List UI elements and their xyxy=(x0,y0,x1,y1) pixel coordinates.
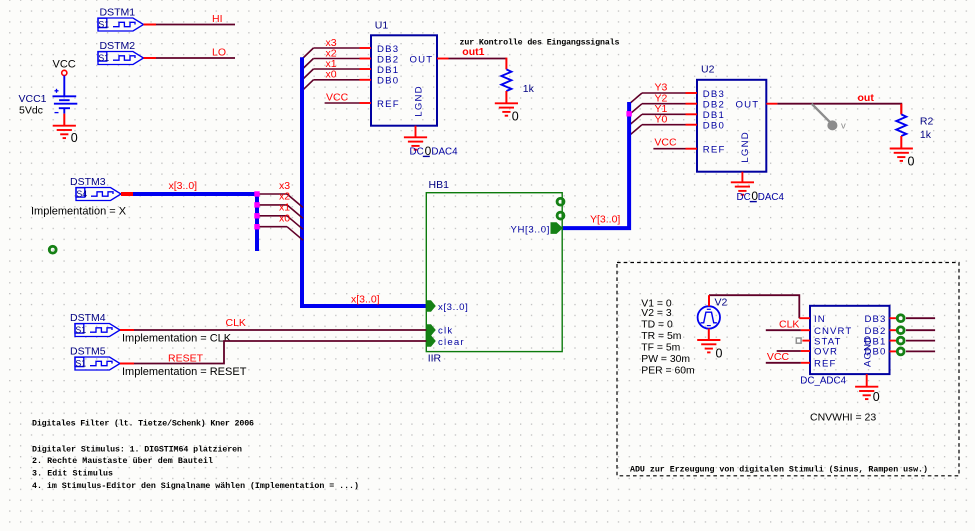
svg-text:0: 0 xyxy=(908,154,915,168)
svg-text:0: 0 xyxy=(71,131,78,145)
svg-text:0: 0 xyxy=(425,144,432,158)
svg-text:AGND: AGND xyxy=(863,335,874,367)
bus x[3..0] from DSTM3 xyxy=(133,194,257,251)
U2 pin stubs xyxy=(686,93,778,182)
svg-text:x[3..0]: x[3..0] xyxy=(351,294,380,306)
svg-text:0: 0 xyxy=(512,109,519,123)
svg-text:x[3..0]: x[3..0] xyxy=(438,302,468,313)
wire x3 to U1.DB3 xyxy=(313,47,359,49)
svg-text:VCC: VCC xyxy=(326,91,349,103)
wire VCC to U2.REF xyxy=(653,148,685,150)
svg-text:Digitales Filter (lt. Tietze/S: Digitales Filter (lt. Tietze/Schenk) Kne… xyxy=(32,419,254,429)
HB1 port clk xyxy=(427,324,436,336)
svg-text:Y[3..0]: Y[3..0] xyxy=(590,213,620,225)
wire Y2 to U2.DB2 xyxy=(642,103,686,105)
bus x[3..0] main vertical xyxy=(302,57,426,306)
wire V2 to ground xyxy=(708,329,710,340)
svg-text:IN: IN xyxy=(814,314,826,325)
ADC pin names xyxy=(814,314,887,370)
wire VCC to battery xyxy=(63,76,65,97)
DSTM2 pin stub xyxy=(144,57,157,59)
junction x3 xyxy=(254,191,259,196)
wire DB3 xyxy=(906,317,935,319)
svg-text:HB1: HB1 xyxy=(429,179,450,191)
svg-text:x0: x0 xyxy=(279,213,290,225)
svg-text:STAT: STAT xyxy=(814,336,842,347)
unconnected marker (left) xyxy=(49,246,56,253)
svg-text:DAC4: DAC4 xyxy=(431,147,458,158)
wire Y0 to U2.DB0 xyxy=(642,124,686,126)
svg-text:DB0: DB0 xyxy=(377,76,399,87)
svg-text:ADU zur Erzeugung von digitale: ADU zur Erzeugung von digitalen Stimuli … xyxy=(630,464,928,474)
svg-text:DSTM1: DSTM1 xyxy=(100,7,136,19)
wire R2 to ground xyxy=(900,136,902,149)
svg-text:CNVRT: CNVRT xyxy=(814,326,852,337)
svg-text:IIR: IIR xyxy=(428,352,442,364)
ADC U3 DC_ADC4 xyxy=(810,306,890,374)
svg-text:TR = 5m: TR = 5m xyxy=(641,331,681,342)
svg-text:OVR: OVR xyxy=(814,347,838,358)
svg-text:out: out xyxy=(858,92,875,104)
svg-text:1k: 1k xyxy=(523,83,535,95)
svg-text:DB3: DB3 xyxy=(865,314,887,325)
STAT no-connect marker xyxy=(796,338,801,343)
svg-text:DC: DC xyxy=(410,147,424,158)
svg-text:REF: REF xyxy=(703,145,726,156)
svg-text:LO: LO xyxy=(212,47,226,59)
wire LO xyxy=(156,57,235,59)
dashed boundary box xyxy=(617,263,959,476)
svg-text:TF = 5m: TF = 5m xyxy=(641,343,680,354)
svg-text:VCC: VCC xyxy=(654,136,677,148)
svg-text:5Vdc: 5Vdc xyxy=(19,104,43,116)
bus tap x0 xyxy=(257,226,287,228)
wire VCC to REF (ADC) xyxy=(766,362,801,364)
svg-text:DB3: DB3 xyxy=(703,89,725,100)
svg-text:REF: REF xyxy=(377,99,400,110)
ground (ADC AGND) xyxy=(855,387,878,399)
unconnected pin marker (HB1 top) xyxy=(557,198,564,205)
wire x0 to U1.DB0 xyxy=(313,79,359,81)
digital stimulus DSTM2 xyxy=(98,52,144,65)
ground (U1 LGND) xyxy=(404,137,427,149)
wire x2 to U1.DB2 xyxy=(313,58,359,60)
title text block xyxy=(32,419,359,491)
svg-text:V2: V2 xyxy=(715,297,728,309)
ground 0 (VCC1) xyxy=(53,126,76,138)
pin marker DB3 xyxy=(897,315,904,322)
svg-text:S1: S1 xyxy=(98,19,109,29)
svg-text:3. Edit Stimulus: 3. Edit Stimulus xyxy=(32,469,113,479)
svg-text:0: 0 xyxy=(751,189,758,203)
svg-text:DB2: DB2 xyxy=(703,100,725,111)
hierarchical block HB1 xyxy=(426,193,562,352)
svg-text:VCC1: VCC1 xyxy=(19,93,47,105)
wire out xyxy=(777,104,901,115)
svg-text:S1: S1 xyxy=(75,358,86,368)
svg-text:PW = 30m: PW = 30m xyxy=(641,354,690,365)
ground (U2 LGND) xyxy=(731,182,754,194)
wire HI xyxy=(156,24,235,26)
svg-text:HI: HI xyxy=(212,13,223,25)
junction x0 xyxy=(254,224,259,229)
svg-text:0: 0 xyxy=(873,390,880,404)
wire x1 to U1.DB1 xyxy=(313,68,359,70)
wire CLK xyxy=(134,329,426,331)
svg-text:DC: DC xyxy=(737,192,751,203)
svg-text:VCC: VCC xyxy=(53,58,76,70)
svg-text:Implementation = X: Implementation = X xyxy=(31,205,127,217)
pin marker DB2 xyxy=(897,327,904,334)
svg-text:DB1: DB1 xyxy=(377,65,399,76)
svg-text:YH[3..0]: YH[3..0] xyxy=(511,224,550,235)
pin marker DB1 xyxy=(897,337,904,344)
wire CLK to CNVRT xyxy=(766,329,801,331)
svg-text:LGND: LGND xyxy=(740,131,751,162)
DSTM4 pin stub xyxy=(120,329,134,331)
wire OVR xyxy=(777,350,801,352)
digital stimulus DSTM3 xyxy=(76,188,121,201)
svg-text:OUT: OUT xyxy=(410,54,434,65)
U1 pin names xyxy=(377,44,433,117)
svg-text:0: 0 xyxy=(716,347,723,361)
svg-text:CLK: CLK xyxy=(779,318,799,330)
wire V2 to ADC.IN xyxy=(709,295,799,318)
ground 0 (out1) xyxy=(495,103,518,115)
svg-text:DSTM2: DSTM2 xyxy=(100,40,136,52)
svg-text:S1: S1 xyxy=(98,53,109,63)
digital stimulus DSTM1 xyxy=(98,18,144,31)
svg-text:S1: S1 xyxy=(75,325,86,335)
digital stimulus DSTM4 xyxy=(75,324,120,337)
svg-text:TD = 0: TD = 0 xyxy=(641,320,673,331)
svg-text:clk: clk xyxy=(438,326,453,337)
DSTM3 bus stub xyxy=(121,192,133,196)
svg-text:v: v xyxy=(841,121,846,132)
svg-text:out1: out1 xyxy=(462,46,484,58)
resistor R2 1k xyxy=(896,114,906,136)
svg-text:DSTM5: DSTM5 xyxy=(70,346,106,358)
svg-text:Implementation = RESET: Implementation = RESET xyxy=(122,366,247,378)
pin marker DB0 xyxy=(897,348,904,355)
U2 pin names xyxy=(703,89,760,163)
svg-text:PER = 60m: PER = 60m xyxy=(641,365,694,376)
wire out1 xyxy=(449,58,507,60)
wire DB2 xyxy=(906,329,935,331)
voltage probe xyxy=(812,104,831,123)
junction x1 xyxy=(254,213,259,218)
op-amp/DAC U1 xyxy=(371,35,437,125)
svg-text:4. im Stimulus-Editor den Sign: 4. im Stimulus-Editor den Signalname wäh… xyxy=(32,481,359,491)
svg-text:U2: U2 xyxy=(701,64,715,76)
bus tap x3 xyxy=(257,193,287,195)
svg-text:1k: 1k xyxy=(920,129,932,141)
svg-text:R2: R2 xyxy=(920,115,934,127)
svg-text:LGND: LGND xyxy=(414,85,425,116)
svg-text:RESET: RESET xyxy=(168,352,204,364)
wire battery to ground xyxy=(63,114,65,126)
svg-text:CLK: CLK xyxy=(226,317,246,329)
resistor 1k (U1 load) xyxy=(501,69,511,91)
op-amp/DAC U2 xyxy=(697,80,766,172)
HB1 port YH[3..0] xyxy=(551,222,563,234)
junction x2 xyxy=(254,202,259,207)
svg-text:2. Rechte Maustaste über dem B: 2. Rechte Maustaste über dem Bauteil xyxy=(32,456,213,466)
wire RESET to clear xyxy=(134,341,426,364)
svg-text:Y0: Y0 xyxy=(655,113,668,125)
svg-text:clear: clear xyxy=(438,337,465,348)
svg-text:DB0: DB0 xyxy=(703,121,725,132)
HB1 port x[3..0] xyxy=(427,300,436,312)
V2 parameter list xyxy=(641,299,694,377)
svg-text:Digitaler Stimulus: 1. DIGSTIM: Digitaler Stimulus: 1. DIGSTIM64 platzie… xyxy=(32,445,242,455)
svg-text:DAC4: DAC4 xyxy=(758,192,785,203)
svg-text:DC_ADC4: DC_ADC4 xyxy=(800,375,846,386)
bus tap x1 xyxy=(257,215,287,217)
svg-text:DB2: DB2 xyxy=(377,54,399,65)
svg-text:U1: U1 xyxy=(375,20,389,32)
svg-text:V2 = 3: V2 = 3 xyxy=(641,308,672,319)
svg-text:DSTM4: DSTM4 xyxy=(70,312,106,324)
DSTM5 pin stub xyxy=(120,363,134,365)
svg-text:x[3..0]: x[3..0] xyxy=(169,180,198,192)
svg-text:Implementation = CLK: Implementation = CLK xyxy=(122,333,232,345)
svg-text:VCC: VCC xyxy=(767,351,790,363)
digital stimulus DSTM5 xyxy=(75,357,120,370)
source V2 xyxy=(698,306,720,328)
wire resistor to ground xyxy=(505,91,507,103)
bus Y[3..0] xyxy=(562,102,629,228)
U1 pin stubs xyxy=(360,48,449,137)
battery VCC1 5Vdc xyxy=(53,96,78,113)
wire DB1 xyxy=(906,340,935,342)
DSTM1 pin stub xyxy=(144,24,157,26)
wire Y3 to U2.DB3 xyxy=(642,92,686,94)
svg-text:DB3: DB3 xyxy=(377,44,399,55)
wire DB0 xyxy=(906,350,935,352)
wire Y1 to U2.DB1 xyxy=(642,113,686,115)
wire VCC to U1.REF xyxy=(325,102,360,104)
svg-text:OUT: OUT xyxy=(736,100,760,111)
svg-text:REF: REF xyxy=(814,358,837,369)
HB1 port clear xyxy=(427,335,436,347)
svg-text:S4: S4 xyxy=(76,189,87,199)
svg-text:CNVWHI = 23: CNVWHI = 23 xyxy=(810,411,876,423)
bus tap x2 xyxy=(257,204,287,206)
svg-text:x0: x0 xyxy=(326,69,337,81)
svg-text:DB1: DB1 xyxy=(703,110,725,121)
junction Y bus xyxy=(626,111,631,116)
wire to resistor xyxy=(505,58,507,70)
svg-text:DSTM3: DSTM3 xyxy=(70,176,106,188)
unconnected pin marker (HB1 top 2) xyxy=(557,212,564,219)
ground 0 (out) xyxy=(890,149,913,161)
ground 0 (V2) xyxy=(697,340,720,352)
ADC pin stubs xyxy=(799,318,896,387)
